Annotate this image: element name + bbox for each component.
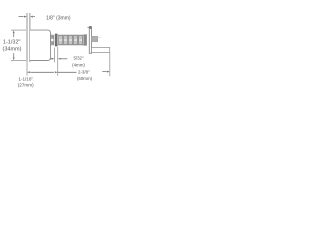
- svg-text:(27mm): (27mm): [18, 83, 34, 88]
- svg-text:1/8" (3mm): 1/8" (3mm): [46, 16, 71, 22]
- svg-text:2-3/8": 2-3/8": [78, 70, 90, 75]
- svg-text:(4mm): (4mm): [72, 62, 85, 67]
- svg-text:(60mm): (60mm): [77, 76, 93, 81]
- svg-text:1-1/32": 1-1/32": [3, 40, 21, 46]
- svg-text:1-1/16": 1-1/16": [18, 77, 33, 82]
- svg-text:(34mm): (34mm): [3, 46, 22, 52]
- svg-text:5/32": 5/32": [73, 55, 84, 60]
